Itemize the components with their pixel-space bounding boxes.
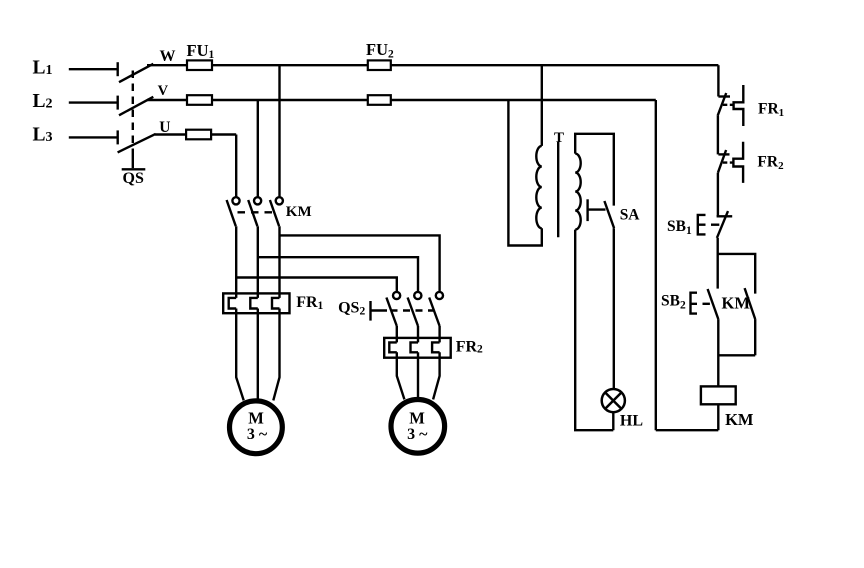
wire W line middle xyxy=(212,64,368,66)
thermal relay FR2 element 1 xyxy=(389,342,397,352)
thermal relay FR2 element 3 xyxy=(432,342,440,352)
transformer T core xyxy=(557,142,559,238)
svg-text:FU1: FU1 xyxy=(187,41,215,61)
fuse FU1 pole V xyxy=(187,95,212,105)
wire W line left xyxy=(147,64,187,66)
contact FR2 (NC) fixed tick xyxy=(718,153,729,155)
svg-text:SB2: SB2 xyxy=(661,292,686,311)
wire V line middle xyxy=(212,99,368,101)
wire KM pole 2 down to FR1 xyxy=(257,226,259,298)
switch QS2 pole 3 blade xyxy=(429,298,439,327)
contact FR2 link dash xyxy=(723,161,734,163)
wire branch pole 1 to QS2 pole 1 xyxy=(236,278,397,292)
contactor KM main pole 2 circle xyxy=(254,197,261,204)
switch QS2 pole 2 blade xyxy=(408,298,418,327)
switch QS pole 1 terminal bar xyxy=(116,62,118,76)
wire U line right xyxy=(211,133,236,135)
wire FR2 to motor 2 right xyxy=(433,352,440,399)
switch QS pole 1 blade xyxy=(119,64,153,82)
wire parallel branch top xyxy=(718,254,756,294)
pushbutton SB2 actuator xyxy=(691,293,698,314)
switch QS2 pole 2 circle xyxy=(414,292,421,299)
wire FR2 to motor 2 middle xyxy=(417,352,419,398)
motor M2 circle xyxy=(391,400,445,454)
wire V line left xyxy=(147,99,187,101)
pushbutton SB2 (NO) blade xyxy=(708,289,719,319)
switch QS pole 2 blade xyxy=(119,97,153,116)
thermal relay FR2 box xyxy=(384,338,451,358)
wire drop W to KM pole 3 xyxy=(278,65,280,197)
wire V line right xyxy=(391,99,656,101)
wire branch pole 2 to QS2 pole 2 xyxy=(258,257,418,292)
wire V drop control return xyxy=(655,100,657,430)
fuse FU2 pole V xyxy=(368,95,391,105)
wire L1 xyxy=(69,68,118,70)
motor M1 circle xyxy=(230,401,283,454)
switch QS link lower solid segment xyxy=(132,153,134,169)
switch QS pole 3 terminal bar xyxy=(116,130,118,144)
lamp HL cross xyxy=(605,393,621,409)
svg-text:FR1: FR1 xyxy=(758,101,784,120)
switch QS2 pole 1 blade xyxy=(386,298,396,327)
pushbutton SB1 (NC) tick xyxy=(717,215,733,217)
svg-text:HL: HL xyxy=(620,412,643,429)
contact FR1 blade xyxy=(718,93,727,116)
contact FR1 (NC) fixed tick xyxy=(718,95,730,97)
svg-text:FR1: FR1 xyxy=(296,294,323,312)
svg-text:KM: KM xyxy=(722,294,751,313)
thermal relay FR1 element 3 xyxy=(272,298,280,309)
svg-text:T: T xyxy=(554,130,564,146)
contactor KM main pole 1 circle xyxy=(232,197,239,204)
switch SA fixed arm xyxy=(588,208,606,210)
wire transformer primary bottom to V xyxy=(508,100,541,246)
wire U line left xyxy=(155,133,186,135)
fuse FU1 pole W xyxy=(187,60,212,70)
wire secondary top to SA xyxy=(575,134,614,206)
wire QS2 pole 3 to FR2 xyxy=(438,326,440,342)
switch QS mechanical link (dashed) xyxy=(132,71,134,153)
thermal relay FR2 element 2 xyxy=(411,342,419,352)
svg-text:L2: L2 xyxy=(33,91,53,112)
svg-text:FR2: FR2 xyxy=(456,339,483,356)
wire branch pole 3 to QS2 pole 3 xyxy=(280,235,440,292)
switch SA blade xyxy=(604,201,614,228)
transformer T secondary coil xyxy=(575,154,581,230)
contactor KM link (dashed) xyxy=(238,211,275,213)
switch QS2 pole 3 circle xyxy=(436,292,443,299)
switch QS pole 3 blade xyxy=(118,134,156,153)
wire QS2 pole 2 to FR2 xyxy=(417,326,419,342)
contactor KM main pole 3 blade xyxy=(270,200,279,226)
wire KM pole 1 down to FR1 xyxy=(235,226,237,298)
contactor KM main pole 2 blade xyxy=(248,200,257,226)
wire FR1 to motor 1 left xyxy=(236,309,244,401)
switch QS2 link solid segment xyxy=(371,309,388,311)
svg-text:KM: KM xyxy=(286,204,312,220)
wire FR2 to SB1 xyxy=(717,173,719,217)
wire FR1 to motor 1 right xyxy=(273,309,279,401)
wire drop V to KM pole 2 xyxy=(257,100,259,197)
svg-text:L3: L3 xyxy=(33,125,53,146)
lamp HL circle xyxy=(602,389,625,412)
switch QS pole 2 terminal bar xyxy=(116,96,118,110)
wire drop U to KM pole 1 xyxy=(235,135,237,198)
contact FR2 actuator xyxy=(733,142,743,183)
wire SB2 to coil xyxy=(717,319,719,386)
svg-text:FR2: FR2 xyxy=(757,154,784,173)
wire L2 xyxy=(69,101,118,103)
svg-text:QS2: QS2 xyxy=(338,300,365,318)
switch SA bar xyxy=(586,199,588,221)
fuse FU1 pole U xyxy=(186,130,211,140)
svg-text:V: V xyxy=(158,83,169,99)
svg-text:L1: L1 xyxy=(33,58,53,79)
thermal relay FR1 element 2 xyxy=(250,298,257,309)
switch QS overline xyxy=(122,168,146,170)
wire parallel branch bottom xyxy=(718,354,756,356)
wire FR1 to motor 1 middle xyxy=(257,309,259,400)
wire W drop to control branch xyxy=(717,65,719,96)
switch QS2 bar xyxy=(369,301,371,321)
pushbutton SB2 link dash xyxy=(703,303,710,305)
svg-text:QS: QS xyxy=(123,170,144,187)
contact FR2 blade xyxy=(718,150,726,173)
fuse FU2 pole W xyxy=(368,60,391,70)
wire coil to bottom xyxy=(717,404,719,430)
pushbutton SB1 link dash xyxy=(711,223,719,225)
wire W line right xyxy=(391,64,719,66)
wire KM aux down xyxy=(754,319,756,355)
switch QS2 link (dashed) xyxy=(391,309,434,311)
wire W drop to transformer primary xyxy=(541,65,543,146)
pushbutton SB1 actuator xyxy=(698,215,706,235)
thermal relay FR1 box xyxy=(223,293,289,313)
wire SA to lamp HL xyxy=(613,228,615,388)
svg-text:W: W xyxy=(160,48,176,65)
wire QS2 pole 1 to FR2 xyxy=(396,326,398,342)
wire secondary bottom xyxy=(575,230,613,431)
wire KM pole 3 down to FR1 xyxy=(278,226,280,298)
contact FR1 link dash xyxy=(723,104,734,106)
contactor KM main pole 3 circle xyxy=(276,197,283,204)
wire FR2 to motor 2 left xyxy=(397,352,405,399)
coil KM xyxy=(701,386,736,404)
wire control bottom xyxy=(656,429,719,431)
svg-text:3 ~: 3 ~ xyxy=(247,426,268,443)
thermal relay FR1 element 1 xyxy=(229,298,237,309)
contact FR1 actuator xyxy=(734,85,744,126)
wire FR1 to FR2 contact xyxy=(717,116,719,155)
svg-text:3 ~: 3 ~ xyxy=(407,426,428,443)
wire L3 xyxy=(69,136,118,138)
svg-text:SB1: SB1 xyxy=(667,218,692,237)
svg-text:SA: SA xyxy=(620,206,641,223)
transformer T primary coil xyxy=(536,146,542,228)
contactor KM main pole 1 blade xyxy=(227,200,236,226)
pushbutton SB1 blade xyxy=(717,211,728,238)
svg-text:KM: KM xyxy=(725,410,754,429)
wire SB1 to SB2 xyxy=(717,238,719,289)
switch QS2 pole 1 circle xyxy=(393,292,400,299)
wire lamp HL bottom xyxy=(612,412,614,430)
contact KM aux (NO) blade xyxy=(745,288,756,319)
svg-text:FU2: FU2 xyxy=(366,40,394,61)
